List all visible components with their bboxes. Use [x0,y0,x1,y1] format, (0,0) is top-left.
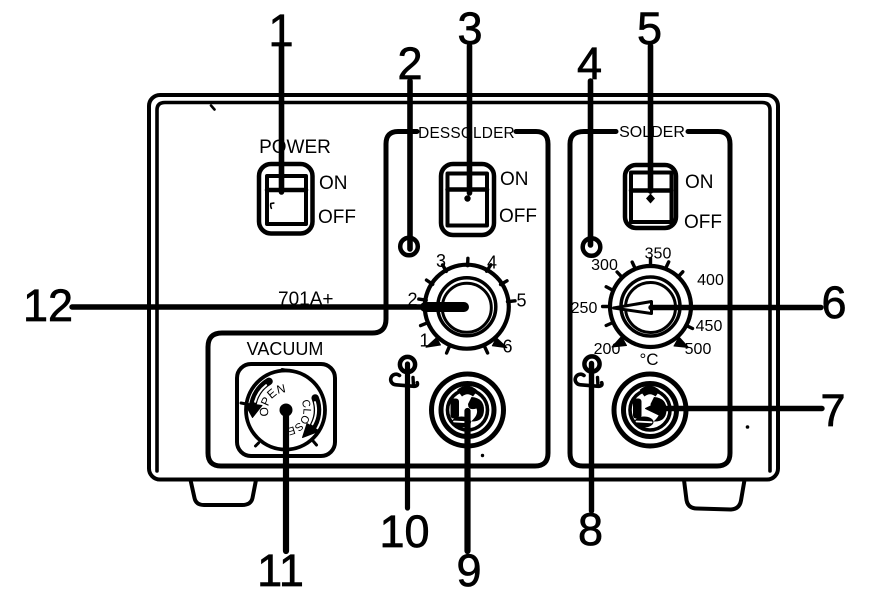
svg-text:500: 500 [685,341,712,358]
vacuum connector circle [246,371,325,450]
svg-text:ON: ON [685,172,714,193]
SOLDER switch divider [631,188,672,193]
solder knob stop wedges [612,337,627,348]
SOLDER switch dot [646,194,655,204]
leader line 6 [651,305,821,310]
svg-text:701A+: 701A+ [278,289,333,310]
svg-text:1: 1 [268,5,293,56]
SOLDER switch outer [625,165,676,228]
DESSOLDER switch inner [448,174,488,226]
svg-text:4: 4 [487,253,497,273]
leader line 4 [588,81,594,245]
POWER switch divider [267,188,306,193]
leader line 1 [279,46,285,192]
solder knob ring [610,266,691,347]
leader line 3 [467,46,473,193]
svg-text:6: 6 [821,277,846,328]
stray scan mark in power switch [271,203,274,208]
dessolder knob ring [425,265,509,349]
dessolder knob inner circles [438,278,496,336]
svg-text:6: 6 [502,337,512,357]
dessolder DIN socket (callout 9) [432,374,504,446]
svg-text:2: 2 [407,290,417,310]
svg-text:11: 11 [257,545,304,594]
svg-text:2: 2 [397,38,422,89]
POWER switch outer [259,164,313,234]
svg-text:OFF: OFF [499,206,537,227]
svg-text:SOLDER: SOLDER [619,124,685,141]
svg-text:OFF: OFF [684,212,722,233]
right foot [684,480,745,510]
solder region boundary [570,132,730,467]
dessolder LED indicator [400,238,418,256]
vacuum connector square [237,364,335,456]
leader line 8 [589,364,594,512]
svg-text:3: 3 [457,3,482,54]
leader line 12 [72,304,428,309]
svg-text:250: 250 [571,300,598,317]
inner panel rectangle [157,103,770,472]
solder knob pointer wedge [614,302,652,314]
svg-text:8: 8 [578,504,603,555]
vacuum connector rim ticks [282,370,288,371]
leader line 10 [405,364,410,508]
solder LED indicator [583,238,601,256]
dessolder knob stop wedges [426,338,441,348]
leader line 9 [464,411,470,551]
leader line 5 [648,46,654,191]
vacuum CLOSE label [284,401,304,428]
svg-text:10: 10 [379,506,429,557]
stray dot below DIN socket [481,454,484,457]
svg-text:450: 450 [696,318,723,335]
DESSOLDER switch divider [448,187,488,192]
svg-text:°C: °C [639,350,658,369]
solder vacuum port icon (callout 8 target) [575,356,602,386]
dessolder knob ticks [419,258,515,353]
solder knob inner circles [621,277,680,336]
svg-text:1: 1 [419,331,429,351]
svg-text:ON: ON [319,173,348,194]
svg-text:POWER: POWER [259,137,331,158]
svg-text:200: 200 [594,341,621,358]
stray scan mark top-left [211,106,215,110]
leader line 11 [283,412,289,551]
SOLDER switch inner [631,173,672,223]
leader line 2 [407,81,413,249]
outer case rectangle [149,95,778,480]
DESSOLDER switch dot [464,195,470,201]
svg-text:12: 12 [23,280,73,331]
vacuum connector center dot [280,404,293,417]
leader line 7 [658,406,822,411]
svg-text:4: 4 [577,38,602,89]
svg-text:VACUUM: VACUUM [247,339,324,359]
POWER switch inner [267,176,306,224]
vacuum OPEN label [268,393,289,416]
svg-text:300: 300 [591,257,618,274]
svg-text:5: 5 [637,3,662,54]
left foot [191,480,257,505]
svg-text:DESSOLDER: DESSOLDER [418,125,515,142]
dessolder/vacuum region boundary [208,132,548,467]
solder DIN socket (callout 7) [614,374,686,446]
dessolder vacuum port icon (callout 10 target) [391,357,418,386]
svg-text:350: 350 [645,246,672,263]
svg-text:5: 5 [516,291,526,311]
svg-text:OFF: OFF [318,207,356,228]
svg-text:7: 7 [820,385,845,436]
svg-text:9: 9 [456,545,481,594]
stray dot right of solder section [746,425,750,429]
svg-text:400: 400 [697,272,724,289]
svg-text:3: 3 [436,251,446,271]
DESSOLDER switch outer [441,164,494,235]
vacuum open arrow band [253,381,269,407]
dessolder knob pointer [425,302,464,312]
solder knob ticks [603,259,693,329]
vacuum close arrow band [312,398,318,428]
svg-text:ON: ON [500,169,529,190]
